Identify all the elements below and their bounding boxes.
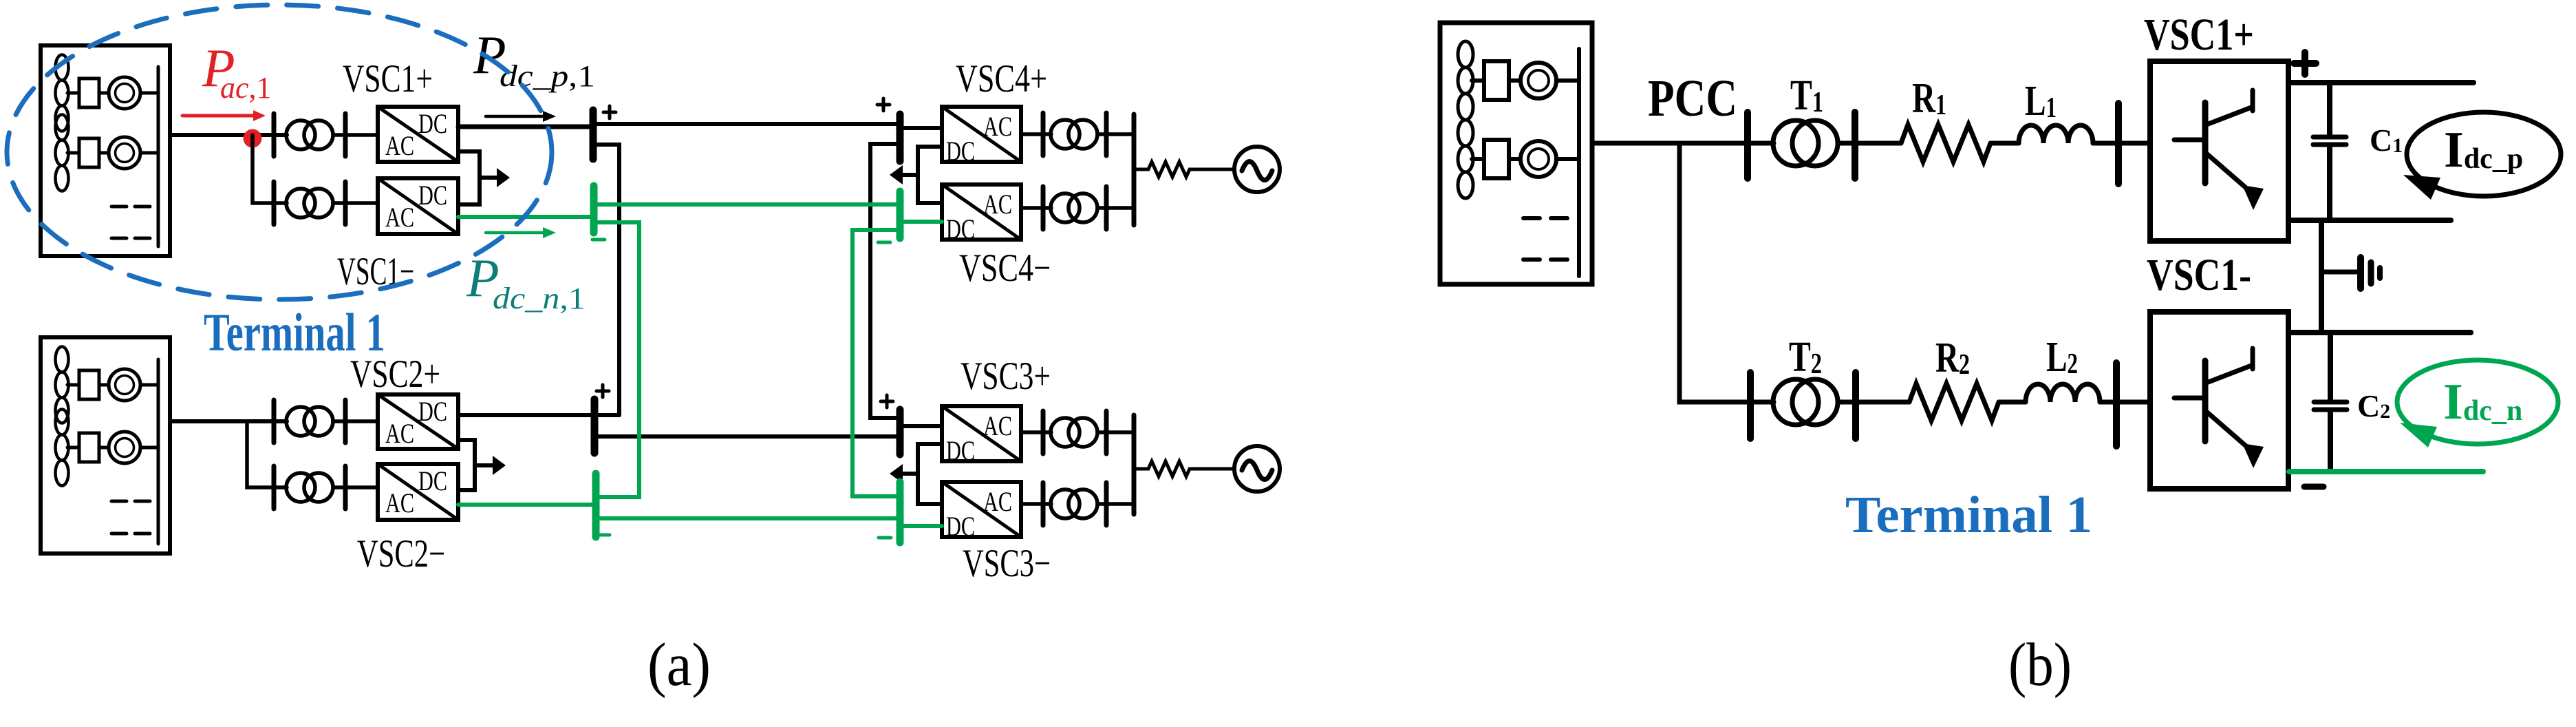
bus tick (1041, 113, 1046, 156)
transformer T4b (1051, 193, 1097, 222)
svg-text:R2: R2 (1935, 335, 1970, 381)
wire (1838, 400, 1909, 405)
bus bar T3 negative (green) (897, 482, 904, 542)
wire (333, 485, 378, 489)
bus tick (343, 400, 348, 443)
bus tick (272, 182, 277, 224)
svg-text:AC: AC (983, 111, 1012, 142)
wire VSC3- DC (green) (900, 524, 942, 528)
wire PCC vertical (1679, 143, 1774, 402)
bus tick (272, 114, 277, 156)
bus tick (343, 114, 348, 156)
minus sign T2 (597, 534, 610, 537)
transformer T3b (1051, 489, 1097, 518)
transformer T2 (b) (1773, 379, 1838, 425)
wire VSC1- bottom output (green) (2289, 469, 2483, 474)
plus sign T2 (597, 385, 609, 397)
wire (1838, 141, 1901, 146)
wire WF2 output (170, 419, 287, 423)
bus tick (1041, 411, 1046, 454)
wire DC- line T2-T3 (green) (596, 516, 900, 520)
svg-text:AC: AC (385, 130, 414, 161)
bus tick (1104, 113, 1109, 156)
bus tick (343, 466, 348, 509)
converter VSC2+ (378, 394, 458, 449)
svg-text:VSC2+: VSC2+ (350, 352, 440, 396)
wire green stub T1 down (594, 222, 639, 497)
bus tick (2113, 363, 2120, 446)
bus tick (1104, 187, 1109, 229)
terminal 1 boundary ellipse (7, 5, 552, 299)
resistor grid T3 (1134, 461, 1234, 476)
neutral arrow marker T3 (890, 464, 918, 483)
svg-text:DC: DC (418, 108, 447, 139)
converter VSC4- (942, 185, 1021, 244)
wire VSC2+ DC output (458, 413, 619, 417)
wire VSC4- AC output (1021, 206, 1051, 210)
wire DC- line T1-T4 (green) (594, 202, 900, 207)
bus tick (1851, 112, 1858, 178)
svg-text:AC: AC (983, 189, 1012, 220)
svg-text:dc_p,1: dc_p,1 (500, 59, 595, 93)
arrow P_ac,1 (182, 110, 266, 121)
transformer T1 (b) (1773, 120, 1838, 166)
wire (333, 419, 378, 423)
minus sign (b) (2304, 484, 2323, 490)
resistor R1 (1901, 125, 1990, 162)
svg-text:dc_n,1: dc_n,1 (493, 282, 586, 315)
converter VSC1- (378, 178, 458, 234)
svg-text:PCC: PCC (1648, 70, 1737, 127)
resistor R2 (1909, 383, 1999, 421)
svg-text:VSC1−: VSC1− (337, 250, 414, 293)
wire T4 bus to VSC4+ (900, 126, 942, 130)
bus tick (1104, 483, 1109, 525)
bus bar T4 negative (green) (897, 191, 904, 238)
wire DC+ line T1-T4 (593, 122, 900, 126)
svg-text:DC: DC (946, 213, 975, 244)
plus sign T1 (603, 106, 616, 118)
svg-text:T1: T1 (1790, 72, 1823, 119)
svg-text:L2: L2 (2046, 334, 2078, 381)
svg-text:Terminal 1: Terminal 1 (1845, 486, 2092, 544)
transformer T2b (286, 473, 333, 502)
plus sign T3 (881, 395, 893, 408)
svg-text:VSC2−: VSC2− (357, 532, 445, 576)
label P_dc_p,1 (473, 25, 595, 93)
svg-text:Idc_n: Idc_n (2443, 374, 2522, 430)
svg-text:VSC1+: VSC1+ (2144, 10, 2254, 60)
wire VSC1+ top output (2288, 80, 2473, 85)
neutral wire VSC3 (918, 444, 942, 504)
wire WF1 to node (170, 133, 287, 137)
AC source G4 (1234, 147, 1280, 192)
wire green stub T4 down overdraw (852, 230, 900, 496)
wire DC+ line T2-T3 (594, 434, 900, 439)
bus bar T1 positive (590, 110, 597, 159)
IGBT Q1 (2174, 90, 2264, 210)
wire VSC3- AC output (1021, 502, 1051, 506)
svg-text:DC: DC (946, 511, 975, 542)
svg-text:(b): (b) (2008, 631, 2072, 699)
neutral arrow marker T4 (890, 165, 918, 185)
wire (1990, 141, 2019, 146)
wire (1097, 132, 1134, 136)
bus bar T2 negative (green) (592, 474, 600, 537)
converter VSC3- (942, 482, 1021, 542)
bus tick (1041, 187, 1046, 229)
svg-text:AC: AC (385, 202, 414, 233)
converter VSC3+ (942, 406, 1021, 466)
svg-text:AC: AC (983, 486, 1012, 517)
wire (2100, 400, 2150, 405)
bus tick (2115, 103, 2122, 184)
bus tick (1744, 112, 1751, 178)
bus tick (272, 400, 277, 443)
label P_dc_n,1 (teal) (466, 248, 586, 315)
svg-text:DC: DC (418, 396, 447, 427)
wire green stub T4 down (852, 230, 900, 496)
svg-text:VSC3−: VSC3− (963, 542, 1051, 585)
bus tick (343, 182, 348, 224)
svg-text:ac,1: ac,1 (220, 71, 272, 105)
wire VSC2- DC output (green) (458, 503, 596, 507)
svg-text:DC: DC (418, 465, 447, 496)
capacitor C2 (2314, 333, 2347, 472)
bus tick (1852, 372, 1859, 439)
converter VSC2- (378, 464, 458, 520)
wire VSC3+ AC output (1021, 430, 1051, 434)
svg-text:VSC1-: VSC1- (2147, 250, 2251, 300)
neutral arrow marker T1 (480, 168, 510, 187)
svg-text:C2: C2 (2357, 388, 2390, 423)
bus bar T3 positive (897, 410, 904, 454)
label P_ac,1 (202, 38, 272, 105)
wire (333, 201, 378, 205)
svg-text:T2: T2 (1789, 334, 1822, 381)
current loop I_dc_p (2403, 112, 2561, 200)
wire VSC1+ DC output (458, 125, 593, 129)
neutral wire VSC4 (918, 147, 942, 203)
wire (2093, 141, 2150, 146)
arrow P_dc_p,1 (486, 111, 556, 122)
wire VSC4- DC (green) (900, 220, 942, 224)
bus bar T2 positive (591, 399, 599, 453)
inductor L1 (2019, 125, 2093, 143)
transformer T2a (286, 407, 333, 436)
wire (1097, 206, 1134, 210)
svg-text:L1: L1 (2025, 78, 2057, 125)
wire node down to lower branch (253, 135, 287, 203)
transformer T3a (1051, 418, 1097, 447)
wire junction down T2 (247, 421, 287, 487)
current loop I_dc_n (green) (2397, 360, 2558, 447)
wire (333, 133, 378, 137)
wire (1999, 400, 2026, 405)
svg-text:(a): (a) (647, 631, 711, 699)
wire WF to PCC branch (1592, 141, 1774, 146)
arrow P_dc_n,1 (green) (486, 227, 556, 238)
converter VSC1+ (378, 107, 458, 162)
converter VSC4+ (942, 107, 1021, 167)
minus sign T1 (592, 238, 605, 242)
bus bar T1 negative (green) (590, 186, 598, 233)
wind farm WF1 (41, 45, 170, 256)
plus sign (b) (2294, 52, 2316, 74)
wire (1097, 430, 1134, 434)
svg-text:DC: DC (946, 136, 975, 167)
AC source G3 (1234, 446, 1280, 492)
plus sign T4 (877, 98, 890, 111)
wire VSC1+ bottom output (2288, 218, 2451, 223)
bus tick (1041, 483, 1046, 525)
svg-text:VSC3+: VSC3+ (960, 355, 1051, 398)
wire (1097, 502, 1134, 506)
wire DC- line T1-T4 overdraw (green) (594, 202, 900, 207)
svg-text:C1: C1 (2370, 123, 2403, 158)
svg-text:DC: DC (946, 435, 975, 466)
svg-text:R1: R1 (1912, 75, 1946, 122)
wire stub T1 to down line (593, 145, 619, 415)
svg-text:VSC1+: VSC1+ (343, 57, 433, 101)
svg-text:VSC4−: VSC4− (959, 246, 1051, 290)
node PCC1 (red dot) (244, 129, 262, 148)
minus sign T4 (878, 241, 890, 244)
capacitor C1 (2313, 83, 2346, 220)
svg-text:Idc_p: Idc_p (2444, 122, 2523, 178)
wind farm WF2 (41, 337, 170, 554)
neutral wire VSC2 (458, 440, 475, 490)
minus sign T3 (879, 536, 891, 540)
neutral arrow marker T2 (475, 456, 506, 475)
resistor grid T4 (1134, 162, 1234, 177)
transformer T1b (286, 189, 333, 218)
bus tick (272, 466, 277, 509)
transformer T1a (286, 120, 333, 149)
bus bar T4 positive (897, 114, 904, 161)
svg-text:VSC4+: VSC4+ (956, 57, 1047, 101)
AC bus T4 (1132, 114, 1137, 225)
IGBT Q2 (2174, 348, 2264, 468)
svg-text:DC: DC (418, 180, 447, 211)
wire VSC1- top output (2288, 330, 2471, 335)
neutral wire VSC1 (458, 151, 480, 204)
svg-text:AC: AC (385, 418, 414, 449)
wire T3 bus to VSC3+ (900, 424, 942, 428)
wire VSC1- DC output (green) (458, 215, 594, 219)
converter VSC1+ (b) (2150, 61, 2288, 241)
inductor L2 (2026, 384, 2100, 402)
transformer T4a (1051, 120, 1097, 149)
converter VSC1- (b) (2150, 312, 2288, 489)
svg-text:AC: AC (385, 487, 414, 518)
wire green stub T1 down overdraw (594, 222, 639, 497)
wind farm WF (b) (1440, 23, 1592, 284)
wire mid vertical junction (2319, 220, 2324, 333)
svg-text:AC: AC (983, 410, 1012, 441)
wire VSC4+ AC output (1021, 132, 1051, 136)
ground symbol (2321, 257, 2380, 288)
bus tick (1104, 411, 1109, 454)
AC bus T3 (1132, 415, 1137, 514)
bus tick (1747, 372, 1754, 439)
wire stub T4 down line (870, 144, 900, 418)
